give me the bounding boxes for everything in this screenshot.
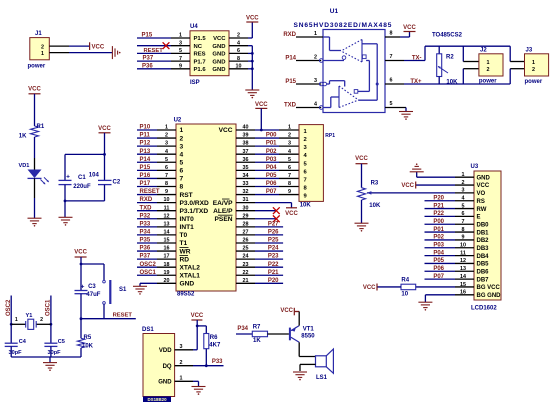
svg-text:WR: WR — [180, 248, 191, 255]
svg-text:1: 1 — [15, 317, 18, 323]
svg-text:GND: GND — [180, 281, 195, 288]
svg-text:TX-: TX- — [412, 55, 422, 61]
wire net P16 — [137, 177, 157, 179]
U1 internal driver triangle — [338, 86, 340, 108]
svg-text:R3: R3 — [371, 180, 379, 186]
wire net P23 — [255, 258, 283, 260]
svg-text:BG GND: BG GND — [477, 293, 502, 299]
wire net P24 — [255, 250, 283, 252]
svg-text:R4: R4 — [401, 278, 409, 284]
wire net P20 — [255, 282, 283, 284]
svg-text:4K7: 4K7 — [209, 342, 221, 348]
svg-text:DB5: DB5 — [477, 262, 490, 268]
wire U2 pin30 ALE stub — [255, 210, 276, 212]
svg-text:6: 6 — [390, 78, 393, 84]
wire net P26 — [255, 234, 283, 236]
svg-text:GND: GND — [477, 175, 491, 181]
wire VCC to R1 — [34, 94, 36, 126]
svg-text:RXD: RXD — [140, 197, 153, 203]
connector U3 (LCD1602) — [474, 171, 501, 300]
svg-text:1: 1 — [314, 31, 317, 37]
svg-text:RW: RW — [477, 207, 487, 213]
svg-text:DB3: DB3 — [477, 246, 490, 252]
wire net P33 — [137, 226, 157, 228]
wire R3 to ground — [361, 200, 363, 223]
power VCC (J1) — [89, 42, 91, 50]
svg-text:3: 3 — [180, 143, 184, 150]
U1 internal receiver input tap — [362, 43, 377, 45]
svg-text:6: 6 — [288, 165, 291, 171]
svg-text:P14: P14 — [140, 157, 151, 163]
U1 internal DI path — [323, 107, 331, 109]
svg-text:DB1: DB1 — [477, 230, 490, 236]
svg-text:RESET: RESET — [144, 48, 164, 54]
capacitor C1 — [59, 179, 72, 181]
wire U2 pin31 EA to VCC — [255, 202, 292, 204]
svg-text:2: 2 — [288, 133, 291, 139]
U1 pin 6 — [385, 83, 404, 85]
U1 internal receiver triangle — [361, 40, 363, 63]
wire collector to speaker — [298, 342, 300, 356]
svg-text:VCC: VCC — [219, 127, 233, 134]
svg-text:PSEN: PSEN — [215, 216, 233, 223]
wire net OSC2 — [137, 266, 157, 268]
U1 pin 4 — [296, 107, 321, 109]
resistor R3 (pot) — [361, 164, 363, 188]
svg-text:P16: P16 — [140, 173, 151, 179]
svg-text:VCC: VCC — [28, 87, 41, 93]
svg-text:P15: P15 — [140, 165, 151, 171]
wire branch to C1 — [65, 153, 105, 155]
svg-text:P1.6: P1.6 — [194, 67, 207, 73]
svg-text:P06: P06 — [433, 266, 444, 272]
power VCC (U1) — [404, 31, 416, 33]
svg-text:P04: P04 — [266, 165, 277, 171]
wire OSC2 net (left) — [10, 296, 12, 344]
svg-text:XTAL2: XTAL2 — [180, 264, 201, 271]
svg-text:GND: GND — [212, 59, 225, 65]
wire pin8 to VCC — [409, 32, 411, 38]
svg-text:1: 1 — [532, 60, 535, 66]
resistor R2 (terminator pot) — [438, 46, 440, 54]
wire DS1 GND to ground — [193, 380, 199, 382]
U1 internal RE path — [323, 60, 344, 62]
wire net P22 (U3 pin 6) — [425, 215, 456, 217]
wire P37 net (U4 pin7) — [137, 60, 171, 62]
wire crystal bottom rail — [11, 356, 81, 358]
svg-text:VCC: VCC — [255, 102, 268, 108]
wire U3 pin1 to ground — [417, 176, 455, 178]
wire J1 pin2 to VCC — [49, 45, 69, 47]
svg-text:P06: P06 — [266, 181, 277, 187]
svg-text:ISP: ISP — [190, 80, 200, 86]
svg-text:104: 104 — [89, 173, 100, 179]
wire U2 pin29 PSEN stub — [255, 218, 276, 220]
speaker LS1 — [316, 356, 327, 367]
no-ERC marker PSEN — [273, 215, 280, 222]
LED VD1 — [28, 170, 42, 179]
wire net P10 — [137, 129, 157, 131]
svg-text:C4: C4 — [19, 339, 27, 345]
svg-text:GND: GND — [158, 380, 172, 386]
wire net P21 (U3 pin 5) — [425, 208, 456, 210]
svg-text:1K: 1K — [19, 134, 27, 140]
IC DS1 (DS18B20) — [143, 334, 175, 397]
wire U4 pin2 to VCC — [248, 37, 252, 39]
svg-text:DQ: DQ — [163, 364, 172, 370]
U1 internal A bus — [376, 44, 378, 100]
wire net OSC1 — [137, 274, 157, 276]
svg-text:P23: P23 — [268, 254, 279, 260]
wire S1 to reset rail — [103, 304, 105, 319]
ground (J1) — [111, 46, 113, 59]
svg-text:TO485CS2: TO485CS2 — [432, 32, 463, 38]
capacitor C2 — [98, 179, 112, 181]
svg-text:220uF: 220uF — [73, 184, 91, 190]
svg-text:7: 7 — [288, 173, 291, 179]
wire VCC down to C2 — [104, 133, 106, 181]
wire net P07 (U3 pin 14) — [425, 278, 456, 280]
ground (U4) — [245, 89, 259, 91]
ground (U2) — [133, 285, 147, 287]
capacitor C5 — [44, 342, 57, 344]
wire net RESET — [137, 194, 157, 196]
svg-text:DB6: DB6 — [477, 269, 490, 275]
ground (DS1) — [192, 386, 206, 388]
wire net P13 — [137, 153, 157, 155]
wire net P01 to RP1 — [255, 145, 279, 147]
svg-text:P03: P03 — [433, 242, 444, 248]
svg-text:2: 2 — [41, 44, 44, 50]
U1 internal bubble square on receiver — [362, 55, 366, 59]
wire net P27 — [255, 226, 283, 228]
U1 internal B path — [366, 60, 369, 62]
svg-text:5: 5 — [180, 159, 184, 166]
capacitor C4 — [5, 342, 18, 344]
svg-text:+: + — [66, 174, 70, 181]
ground (LED) — [28, 217, 42, 219]
connector U4 (ISP) — [190, 31, 229, 76]
svg-text:J2: J2 — [480, 48, 487, 54]
svg-text:GND: GND — [212, 67, 225, 73]
svg-text:R7: R7 — [253, 325, 261, 331]
no-ERC marker ALE — [273, 207, 280, 214]
svg-text:VO: VO — [477, 191, 486, 197]
svg-text:P00: P00 — [433, 219, 444, 225]
svg-text:E: E — [477, 215, 481, 221]
svg-text:J3: J3 — [526, 48, 533, 54]
resistor R7 — [252, 331, 267, 337]
svg-text:P3.1/TXD: P3.1/TXD — [180, 208, 209, 215]
svg-text:P21: P21 — [268, 270, 279, 276]
wire net P07 to RP1 — [255, 194, 279, 196]
svg-text:10: 10 — [401, 292, 408, 298]
wire net P21 — [255, 274, 283, 276]
svg-text:DS18B20: DS18B20 — [147, 397, 167, 402]
svg-text:P33: P33 — [140, 221, 151, 227]
svg-text:47uF: 47uF — [86, 292, 100, 298]
svg-text:RP1: RP1 — [325, 133, 335, 139]
svg-text:VT1: VT1 — [303, 327, 315, 333]
wire net P04 (U3 pin 11) — [425, 255, 456, 257]
connector J2 — [462, 46, 464, 61]
svg-text:P11: P11 — [140, 133, 151, 139]
wire net P11 — [137, 137, 157, 139]
wire VD1 to ground — [34, 178, 36, 198]
svg-text:VDD: VDD — [159, 348, 172, 354]
svg-text:P02: P02 — [433, 235, 444, 241]
wire net P36 — [137, 250, 157, 252]
node crystal junctions — [10, 323, 13, 326]
wire speaker to ground — [300, 363, 316, 365]
svg-text:6: 6 — [180, 168, 184, 175]
svg-text:10K: 10K — [446, 80, 458, 86]
svg-text:U4: U4 — [190, 24, 198, 30]
wire net P35 — [137, 242, 157, 244]
svg-text:OSC2: OSC2 — [6, 299, 12, 316]
svg-text:VCC: VCC — [92, 45, 105, 51]
ground (R3) — [355, 222, 369, 224]
svg-text:DB2: DB2 — [477, 238, 490, 244]
wire J1 pin1 to ground — [49, 52, 69, 54]
wire net P12 — [137, 145, 157, 147]
svg-text:P21: P21 — [433, 203, 444, 209]
wire net P04 to RP1 — [255, 169, 279, 171]
svg-text:TXD: TXD — [140, 205, 153, 211]
svg-text:P25: P25 — [268, 238, 279, 244]
wire U3 pin2 to VCC — [416, 184, 455, 186]
wire bottom rail — [65, 200, 105, 202]
wire net P22 — [255, 266, 283, 268]
svg-text:P05: P05 — [433, 258, 444, 264]
svg-text:P20: P20 — [433, 195, 444, 201]
svg-text:INT0: INT0 — [180, 216, 195, 223]
svg-text:5: 5 — [390, 101, 393, 107]
ground (U1) — [399, 111, 413, 113]
svg-text:5: 5 — [288, 157, 291, 163]
svg-text:P36: P36 — [140, 246, 151, 252]
svg-text:P12: P12 — [140, 141, 151, 147]
node reset top junction — [80, 263, 83, 266]
wire net P00 to RP1 — [255, 137, 279, 139]
svg-text:GND: GND — [212, 52, 225, 58]
ground (C1 C2) — [59, 216, 73, 218]
svg-text:2: 2 — [487, 67, 490, 73]
svg-text:VCC: VCC — [280, 308, 293, 314]
svg-text:P07: P07 — [433, 274, 444, 280]
resistor R1 — [31, 126, 39, 137]
resistor R4 — [401, 284, 416, 290]
power VCC (U3 pin2) — [415, 182, 417, 189]
svg-text:30pF: 30pF — [48, 350, 62, 356]
svg-text:DB0: DB0 — [477, 222, 490, 228]
svg-text:P15: P15 — [285, 79, 296, 85]
node rail/ground junction — [64, 200, 67, 203]
wire P34 to R7 — [236, 333, 252, 335]
svg-text:NC: NC — [194, 44, 203, 50]
wire net P06 (U3 pin 13) — [425, 270, 456, 272]
wire pin5 to ground — [405, 108, 407, 112]
node VCC tap — [260, 129, 263, 132]
svg-text:30pF: 30pF — [9, 350, 23, 356]
resistor R5 — [80, 319, 82, 339]
wire net P14 — [137, 161, 157, 163]
svg-text:P17: P17 — [140, 181, 151, 187]
svg-text:VCC: VCC — [213, 36, 226, 42]
svg-text:GND: GND — [212, 44, 225, 50]
svg-text:8: 8 — [180, 184, 184, 191]
connector J3 — [509, 46, 511, 61]
node U4 bus junctions — [251, 52, 254, 55]
svg-text:8: 8 — [288, 181, 291, 187]
U1 pin 5 — [385, 107, 406, 109]
U1 pin 2 — [296, 60, 321, 62]
wire net P02 to RP1 — [255, 153, 279, 155]
svg-text:J1: J1 — [35, 31, 42, 37]
svg-text:1K: 1K — [253, 338, 261, 344]
svg-text:power: power — [28, 63, 46, 69]
svg-text:INT1: INT1 — [180, 224, 195, 231]
svg-text:P37: P37 — [140, 254, 151, 260]
svg-text:RD: RD — [180, 256, 190, 263]
svg-text:1: 1 — [288, 125, 291, 131]
svg-text:RESET: RESET — [140, 189, 160, 195]
svg-text:R5: R5 — [84, 335, 92, 341]
svg-text:10K: 10K — [369, 203, 381, 209]
wire U3 pin3 (VO) to R3 wiper — [367, 192, 455, 194]
wire net P03 to RP1 — [255, 161, 279, 163]
wire net P15 — [137, 169, 157, 171]
wire U3 pin16 to ground — [425, 294, 455, 296]
svg-text:P26: P26 — [268, 230, 279, 236]
svg-text:P36: P36 — [142, 63, 153, 69]
wire VCC to node — [80, 257, 82, 264]
svg-text:C3: C3 — [88, 284, 96, 290]
wire C2 to bottom rail — [104, 185, 106, 201]
svg-text:7: 7 — [180, 176, 184, 183]
svg-text:U1: U1 — [330, 8, 339, 15]
svg-text:P24: P24 — [268, 246, 279, 252]
svg-text:8: 8 — [390, 31, 393, 37]
svg-text:R2: R2 — [446, 55, 454, 61]
wire DQ net P33 — [193, 365, 224, 367]
wire net P05 to RP1 — [255, 177, 279, 179]
wire net P03 (U3 pin 10) — [425, 247, 456, 249]
capacitor C3 — [80, 264, 82, 291]
wire R7 to VT1 base — [268, 333, 289, 335]
wire VCC to emitter — [294, 311, 299, 313]
svg-text:VCC: VCC — [74, 250, 87, 256]
svg-text:C5: C5 — [58, 339, 65, 345]
wire P15 net (U4 pin1) — [137, 37, 171, 39]
svg-text:T1: T1 — [180, 240, 188, 247]
svg-text:VCC: VCC — [246, 16, 259, 22]
wire U2 pin40/RP1 pin1 — [255, 129, 279, 131]
svg-text:9: 9 — [288, 189, 291, 195]
wire net P02 (U3 pin 9) — [425, 239, 456, 241]
wire TX- top rail — [424, 46, 426, 60]
power VCC (R4) — [376, 284, 378, 291]
svg-text:7: 7 — [304, 177, 307, 183]
svg-text:VCC: VCC — [363, 285, 376, 291]
svg-text:RXD: RXD — [283, 32, 296, 38]
resistor R6 — [204, 334, 209, 349]
svg-text:P02: P02 — [266, 149, 277, 155]
svg-text:1: 1 — [487, 60, 490, 66]
svg-text:DB7: DB7 — [477, 277, 490, 283]
svg-text:DB4: DB4 — [477, 254, 490, 260]
wire U3 pin15 backlight — [416, 286, 455, 288]
wire net P00 (U3 pin 7) — [425, 223, 456, 225]
wire P36 net (U4 pin9) — [137, 68, 171, 70]
wire net P05 (U3 pin 12) — [425, 262, 456, 264]
svg-text:2: 2 — [304, 137, 307, 143]
no-ERC marker U4 pin3 — [163, 42, 170, 49]
ground (crystal) — [43, 362, 57, 364]
svg-text:OSC2: OSC2 — [140, 262, 157, 268]
wire R6 to DQ — [205, 349, 207, 366]
svg-text:4: 4 — [314, 102, 317, 108]
svg-text:LCD1602: LCD1602 — [471, 305, 497, 311]
power VCC (EA) — [286, 207, 297, 209]
resistor network RP1 — [299, 125, 323, 202]
ground (LS1) — [293, 371, 307, 373]
wire to S1 — [81, 263, 104, 265]
U1 internal driver output — [359, 99, 378, 101]
wire C1 to bottom rail — [64, 185, 66, 201]
svg-text:3: 3 — [288, 141, 291, 147]
svg-text:DS1: DS1 — [142, 327, 154, 333]
svg-text:P20: P20 — [268, 278, 279, 284]
wire RESET net (U4 pin5) — [137, 52, 171, 54]
svg-text:U2: U2 — [174, 118, 182, 124]
svg-text:U3: U3 — [471, 164, 479, 170]
svg-text:BG VCC: BG VCC — [477, 285, 501, 291]
wire rail to ground — [49, 357, 51, 363]
svg-text:8550: 8550 — [301, 334, 315, 340]
wire OSC1 net (right) — [50, 296, 52, 344]
wire net P06 to RP1 — [255, 185, 279, 187]
svg-text:P00: P00 — [266, 133, 277, 139]
svg-text:10K: 10K — [82, 343, 94, 349]
svg-text:P01: P01 — [433, 227, 444, 233]
svg-text:P1.7: P1.7 — [194, 59, 207, 65]
svg-text:7: 7 — [390, 54, 393, 60]
svg-text:C1: C1 — [78, 175, 86, 181]
wire R5 to rail — [80, 348, 82, 357]
svg-text:LS1: LS1 — [316, 375, 328, 381]
svg-text:RES: RES — [194, 52, 206, 58]
svg-text:1: 1 — [180, 127, 184, 134]
svg-text:SN65HVD3082ED/MAX485: SN65HVD3082ED/MAX485 — [294, 22, 393, 29]
wire VDD to VCC — [193, 349, 197, 351]
svg-text:P37: P37 — [143, 56, 154, 62]
svg-text:P34: P34 — [140, 230, 151, 236]
svg-text:2: 2 — [314, 55, 317, 61]
svg-text:P01: P01 — [266, 141, 277, 147]
wire RESET rail — [81, 318, 136, 320]
svg-text:VCC: VCC — [403, 25, 416, 31]
crystal Y1 — [11, 323, 26, 325]
svg-text:S1: S1 — [119, 287, 127, 293]
svg-text:P33: P33 — [212, 359, 223, 365]
svg-text:P34: P34 — [237, 326, 248, 332]
svg-text:89S52: 89S52 — [177, 292, 195, 298]
svg-text:R6: R6 — [210, 335, 218, 341]
IC U2 (89S52 MCU) — [176, 124, 236, 291]
svg-text:VCC: VCC — [285, 211, 298, 217]
svg-text:P03: P03 — [266, 157, 277, 163]
